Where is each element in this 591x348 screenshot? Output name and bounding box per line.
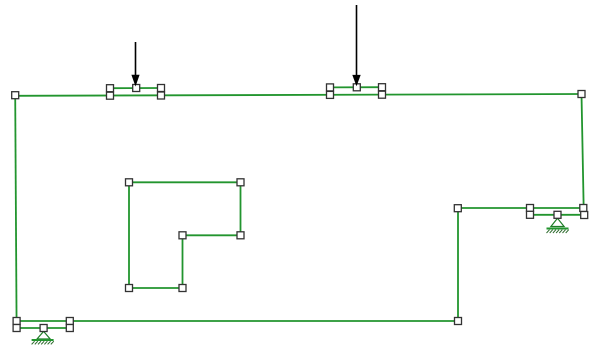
wire: inner opening top edge [129, 181, 241, 183]
wire: left edge member F-A [15, 96, 16, 329]
node D upper-right member left end [454, 205, 461, 212]
node C right corner on main edge [580, 205, 587, 212]
wire: bottom edge member E-F [17, 320, 458, 322]
support: pin support S1 hatching [32, 341, 54, 344]
wire: inner opening bottom edge [129, 287, 183, 289]
load arrow F2 head [352, 75, 360, 86]
wire: bottom support beam [17, 327, 70, 329]
node inner opening bottom-left [126, 285, 133, 292]
wire: upper-right horizontal member C-D [458, 207, 583, 209]
node load beam 1 left end [107, 85, 114, 92]
wire: inner opening middle horizontal edge [183, 234, 241, 236]
wire: right edge member B-C [582, 94, 584, 215]
wire: load beam 2 [330, 86, 382, 88]
node F bottom-left corner on main edge [13, 318, 20, 325]
node main edge under beam 2 right [379, 91, 386, 98]
node load beam 2 middle (load point) [353, 84, 360, 91]
support: pin support S1 ground line [32, 339, 54, 341]
wire: inner opening left edge [128, 182, 130, 288]
wire: top edge member A-B [15, 94, 581, 96]
node load beam 2 left end [327, 84, 334, 91]
support: pin support S2 hatching [547, 230, 569, 233]
node inner opening top-right [237, 179, 244, 186]
node main edge under beam 1 left [107, 92, 114, 99]
node E bottom-right inner corner [455, 318, 462, 325]
wire: load beam 1 [110, 87, 161, 89]
node upper-right edge above support beam left [527, 205, 534, 212]
node inner opening center [179, 232, 186, 239]
node bottom support beam middle (support node) [40, 325, 47, 332]
support: pin support S2 ground line [547, 228, 569, 230]
node load beam 1 middle (load point) [133, 85, 140, 92]
node main edge under beam 1 right [158, 92, 165, 99]
node bottom support beam left end [13, 325, 20, 332]
node inner opening right-middle [237, 232, 244, 239]
node bottom support beam right end [66, 325, 73, 332]
node bottom edge right of support [66, 318, 73, 325]
wire: right support beam [530, 214, 584, 216]
support: pin support S1 triangle [37, 331, 50, 339]
node A top-left corner [12, 92, 19, 99]
node load beam 2 right end [379, 84, 386, 91]
load arrow F1 head [131, 75, 139, 87]
node B top-right corner [578, 91, 585, 98]
load arrow F1 shaft [135, 42, 137, 77]
node right support beam right end [581, 212, 588, 219]
node right support beam left end [527, 211, 534, 218]
node right support beam middle (support node) [554, 211, 561, 218]
node load beam 1 right end [158, 85, 165, 92]
node main edge under beam 2 left [327, 91, 334, 98]
load arrow F2 shaft [356, 5, 358, 77]
node inner opening top-left [126, 179, 133, 186]
node inner opening bottom-middle [179, 285, 186, 292]
wire: inner opening middle vertical edge [182, 235, 184, 288]
support: pin support S2 triangle [551, 218, 564, 226]
wire: inner opening right edge [240, 182, 242, 235]
wire: inner vertical member D-E [457, 208, 459, 321]
